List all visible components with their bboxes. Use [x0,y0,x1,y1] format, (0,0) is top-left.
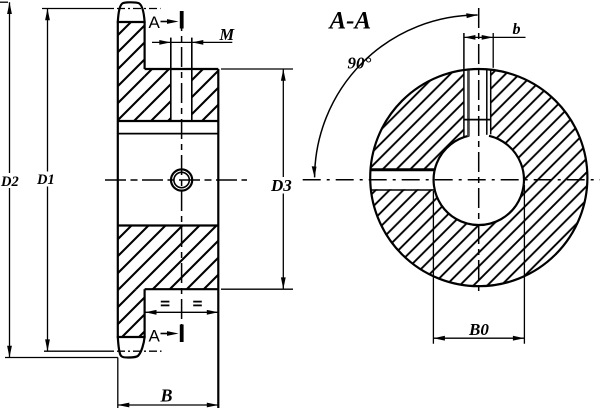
hatched ring of A-A section [370,69,587,286]
tooth top [118,2,145,22]
dimension D1 line [42,9,162,352]
slot M right wall [191,38,193,121]
hub bottom edge [145,288,219,290]
bore circle with keyway gap [434,136,524,225]
equals mark left [161,302,170,306]
white opening: left slit at 90 deg [370,171,435,189]
dimension B0 [433,185,524,344]
set screw hole outer circle [171,169,192,190]
hub right edge / B extension right [217,69,219,408]
plate right edge upper [144,22,146,69]
keyway right outer wall [490,70,492,135]
svg-text:B0: B0 [468,320,489,339]
section arrow A bottom [161,325,184,343]
dimension b [464,35,526,40]
hub top edge [145,68,219,70]
dimension D3 line [221,69,293,289]
svg-text:D3: D3 [270,176,292,195]
set screw hole inner circle [174,172,189,187]
svg-text:b: b [513,21,521,38]
left slit bottom edge [371,189,435,191]
slot M left wall [170,38,172,121]
keyway left outer line / b extension left [463,33,465,138]
keyway left dark wall strip [467,71,470,137]
dimension M [152,40,232,45]
plate left edge [117,22,119,337]
svg-text:90°: 90° [348,54,372,73]
keyway bottom line [118,120,219,122]
left slit top thick edge [371,168,435,171]
white opening: keyway slot top [465,66,491,139]
hatched section: hub upper right of slot [192,69,219,121]
bore top line [118,133,219,135]
section arrow A top [161,11,184,29]
90 degree arc with arrows [312,13,478,177]
dimension D2 line [0,2,118,357]
horizontal centerline left view [105,179,247,181]
svg-text:A-A: A-A [328,8,372,35]
hatched section: sprocket plate upper part [118,22,145,121]
hatched section: lower half full width [118,226,219,290]
keyway right inner wall [486,70,488,135]
b extension right [492,33,494,68]
svg-text:B: B [160,386,173,406]
vertical centerline of slot/screw [181,11,183,342]
horizontal centerline A-A [303,179,600,181]
bore bottom line [118,224,219,226]
svg-text:M: M [219,25,236,44]
outer circle A-A [370,69,587,286]
dimension B [118,358,219,409]
svg-text:D2: D2 [0,174,19,190]
hatched section: hub upper left of slot [145,69,171,121]
keyway slot bottom line [464,119,491,121]
hatched section: sprocket plate lower part [118,289,145,337]
vertical centerline A-A [478,8,480,296]
equal-halves dimension on hub [145,310,218,315]
svg-text:D1: D1 [36,172,55,188]
plate top edge [117,21,146,23]
plate bottom edge [117,336,146,338]
equals mark right [193,302,202,306]
svg-text:A: A [149,13,161,32]
svg-text:A: A [149,327,161,346]
tooth bottom [118,337,145,358]
plate right edge lower [144,289,146,337]
